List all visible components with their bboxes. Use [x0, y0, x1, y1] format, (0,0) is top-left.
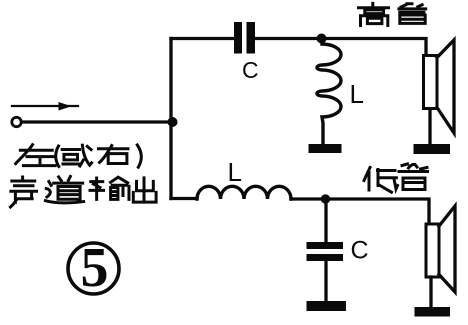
node C junction dot (bottom): [321, 194, 330, 203]
label 左(或右) line 1: [16, 145, 142, 168]
wire: tweeter to ground: [428, 109, 431, 144]
char 输: [90, 177, 129, 199]
speaker SP1 (tweeter): [424, 40, 455, 133]
wire: top branch right of capacitor: [255, 39, 426, 56]
node B junction dot (top): [317, 34, 327, 44]
svg-text:5: 5: [81, 237, 109, 299]
wire: junction down to capacitor: [324, 202, 327, 242]
paren (: [56, 146, 59, 167]
char 声: [10, 177, 36, 207]
ground (below woofer): [415, 307, 451, 317]
signal direction arrow: [12, 102, 78, 111]
figure number circled 5: [68, 237, 119, 299]
wire: top branch left of capacitor: [171, 37, 235, 40]
ground (below C2): [307, 301, 347, 311]
ground (below L1): [309, 144, 342, 153]
svg-text:C: C: [242, 57, 259, 83]
paren ): [137, 145, 141, 167]
wire: bottom branch corner into coil: [171, 197, 197, 200]
input terminal circle: [12, 117, 21, 126]
wire: input horizontal to junction A: [23, 120, 172, 123]
char 音 (bottom): [399, 164, 428, 190]
label 低音 (bass): [364, 164, 428, 192]
char 出: [133, 178, 156, 202]
node A junction dot: [168, 117, 178, 127]
svg-text:C: C: [351, 237, 369, 265]
char 低: [364, 168, 398, 193]
speaker SP2 (woofer): [426, 206, 455, 292]
svg-text:L: L: [350, 79, 364, 109]
wire: capacitor to ground: [324, 260, 327, 301]
svg-text:L: L: [228, 157, 242, 187]
char 高: [359, 3, 389, 25]
wire: main vertical bus: [169, 39, 172, 199]
wire: woofer to ground: [429, 277, 432, 307]
char 道: [45, 176, 83, 202]
char 左: [16, 145, 56, 166]
char 音 (top): [399, 4, 426, 24]
ground (below tweeter): [414, 144, 451, 154]
inductor L2 (woofer series coil): [197, 186, 291, 199]
char 或: [62, 145, 91, 166]
inductor L1 (tweeter shunt coil): [317, 44, 341, 144]
char 右: [99, 146, 129, 164]
capacitor C2 plates (shunt, bottom): [307, 242, 344, 249]
capacitor C1 plates (series, top): [234, 22, 242, 54]
label 声道输出 line 2: [10, 176, 156, 207]
label 高音 (treble): [359, 3, 426, 25]
wire: coil to woofer: [291, 199, 429, 224]
